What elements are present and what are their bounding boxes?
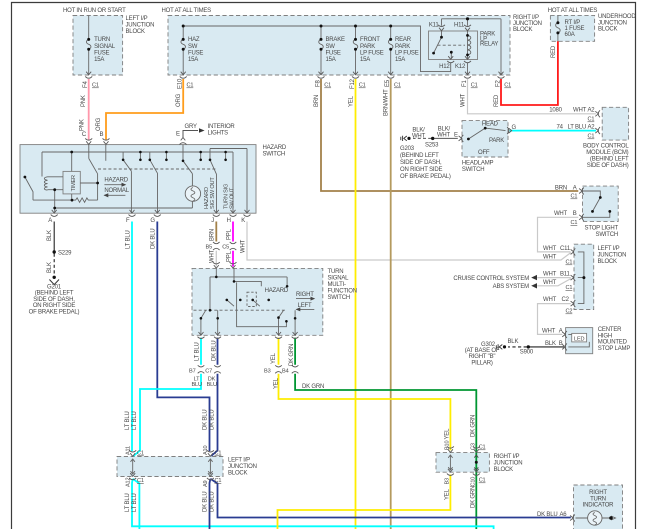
svg-text:FUNCTION: FUNCTION [328, 289, 357, 295]
svg-text:ABS SYSTEM: ABS SYSTEM [493, 284, 530, 290]
svg-text:B7: B7 [189, 369, 196, 375]
svg-text:DK GRN: DK GRN [471, 415, 477, 437]
svg-text:K11: K11 [429, 23, 439, 29]
svg-text:C2: C2 [562, 297, 570, 303]
svg-text:C1: C1 [588, 134, 595, 140]
svg-text:HOT AT ALL TIMES: HOT AT ALL TIMES [548, 8, 598, 14]
svg-text:BLK: BLK [508, 339, 519, 345]
svg-text:C7: C7 [205, 369, 212, 375]
svg-text:MULTI-: MULTI- [328, 282, 347, 288]
svg-text:OF BRAKE PEDAL): OF BRAKE PEDAL) [29, 310, 80, 316]
svg-text:SIDE OF DASH,: SIDE OF DASH, [400, 160, 442, 166]
svg-text:LT BLU: LT BLU [568, 124, 587, 130]
svg-text:C1: C1 [504, 83, 511, 89]
svg-text:H11: H11 [454, 23, 465, 29]
svg-text:SWITCH: SWITCH [328, 295, 350, 301]
svg-text:HEADLAMP: HEADLAMP [462, 161, 494, 167]
svg-text:YEL: YEL [271, 352, 277, 364]
svg-text:BLK: BLK [47, 230, 53, 241]
svg-text:C1: C1 [571, 194, 578, 200]
svg-text:F2: F2 [495, 80, 501, 87]
svg-text:SIGNAL: SIGNAL [328, 276, 350, 282]
svg-text:WHT: WHT [543, 280, 557, 286]
svg-text:WHT: WHT [437, 133, 451, 139]
svg-text:C1: C1 [566, 260, 573, 266]
svg-text:SWITCH: SWITCH [263, 151, 285, 157]
svg-text:C1: C1 [92, 83, 99, 89]
svg-text:SW: SW [188, 44, 198, 50]
svg-text:RED: RED [551, 45, 557, 58]
svg-text:RIGHT I/P: RIGHT I/P [494, 454, 520, 460]
svg-text:WHT: WHT [412, 133, 426, 139]
svg-text:DK BLU: DK BLU [202, 410, 208, 430]
svg-text:LT BLU: LT BLU [132, 411, 138, 430]
svg-text:DK BLU: DK BLU [210, 492, 216, 512]
svg-text:B3: B3 [444, 478, 450, 485]
svg-text:HAZ: HAZ [188, 37, 200, 43]
svg-text:ON RIGHT SIDE: ON RIGHT SIDE [33, 303, 75, 309]
svg-text:DK BLU: DK BLU [202, 492, 208, 512]
svg-text:G: G [150, 218, 155, 224]
svg-text:INDICATOR: INDICATOR [583, 503, 615, 509]
svg-text:WHT: WHT [554, 211, 568, 217]
svg-text:PNK: PNK [80, 119, 86, 131]
svg-text:K12: K12 [455, 64, 466, 70]
svg-text:WHT: WHT [461, 93, 467, 107]
svg-text:ORG: ORG [96, 117, 102, 131]
svg-text:LT BLU: LT BLU [194, 342, 200, 361]
svg-text:F: F [126, 218, 130, 224]
svg-text:C1: C1 [324, 83, 331, 89]
svg-text:PARK: PARK [360, 44, 375, 50]
svg-text:B: B [559, 341, 563, 347]
svg-text:F8: F8 [315, 80, 321, 87]
svg-text:PNK: PNK [81, 95, 87, 107]
svg-text:BLOCK: BLOCK [228, 471, 248, 477]
svg-text:LT BLU: LT BLU [125, 493, 131, 512]
svg-text:UNDERHOOD: UNDERHOOD [598, 14, 636, 20]
svg-text:PARK: PARK [489, 138, 504, 144]
svg-text:WHT: WHT [543, 246, 557, 252]
svg-text:SWITCH: SWITCH [462, 167, 484, 173]
svg-text:FUSE: FUSE [94, 50, 109, 56]
svg-text:(BEHIND LEFT: (BEHIND LEFT [400, 153, 439, 159]
svg-text:BLU: BLU [207, 382, 217, 388]
svg-text:SW: SW [326, 44, 336, 50]
svg-text:C11: C11 [560, 246, 571, 252]
svg-text:DK BLU: DK BLU [151, 229, 157, 249]
svg-text:SIG SW OUT: SIG SW OUT [210, 177, 216, 209]
svg-text:A: A [48, 218, 52, 224]
svg-text:HEAD: HEAD [482, 122, 499, 128]
svg-text:LIGHTS: LIGHTS [208, 131, 229, 137]
svg-text:JUNCTION: JUNCTION [228, 464, 257, 470]
svg-text:K: K [241, 218, 245, 224]
svg-text:WHT: WHT [573, 108, 587, 114]
svg-text:A2: A2 [588, 108, 596, 114]
svg-text:60A: 60A [565, 32, 575, 38]
svg-text:BLOCK: BLOCK [598, 27, 618, 33]
svg-text:LED: LED [574, 336, 584, 342]
svg-text:C1: C1 [566, 285, 573, 291]
svg-text:SIGNAL: SIGNAL [94, 44, 116, 50]
svg-text:OFF: OFF [478, 150, 490, 156]
svg-text:F1: F1 [462, 80, 468, 87]
svg-text:C1: C1 [215, 451, 222, 457]
svg-text:RIGHT: RIGHT [589, 490, 607, 496]
svg-text:G203: G203 [400, 146, 415, 152]
svg-text:C1: C1 [394, 83, 401, 89]
svg-text:LT BLU: LT BLU [132, 493, 138, 512]
svg-text:YEL: YEL [444, 488, 450, 500]
svg-text:BLK: BLK [47, 262, 53, 273]
svg-text:J: J [211, 218, 214, 224]
svg-text:G201: G201 [47, 284, 62, 290]
svg-text:SWITCH: SWITCH [596, 232, 618, 238]
svg-text:BODY CONTROL: BODY CONTROL [583, 144, 629, 150]
svg-text:B3: B3 [264, 369, 271, 375]
svg-text:BRN/WHT: BRN/WHT [384, 89, 390, 116]
svg-text:YEL: YEL [349, 95, 355, 107]
svg-text:BLOCK: BLOCK [513, 27, 533, 33]
svg-text:B11: B11 [560, 272, 570, 278]
svg-text:15A: 15A [395, 57, 405, 63]
svg-text:(AT BASE OF: (AT BASE OF [465, 348, 500, 354]
svg-text:C1: C1 [137, 451, 144, 457]
svg-text:PPL: PPL [226, 250, 232, 262]
svg-text:BRAKE: BRAKE [326, 37, 346, 43]
svg-text:B: B [573, 211, 577, 217]
svg-text:H12: H12 [439, 64, 450, 70]
svg-text:1080: 1080 [549, 108, 562, 114]
svg-text:H: H [227, 218, 231, 224]
svg-text:C1: C1 [571, 220, 578, 226]
svg-text:G: G [512, 125, 517, 131]
svg-text:YEL: YEL [274, 377, 280, 389]
svg-text:LP FUSE: LP FUSE [395, 50, 419, 56]
svg-text:A12: A12 [125, 478, 131, 487]
svg-text:PILLAR): PILLAR) [471, 360, 492, 366]
svg-text:G302: G302 [481, 342, 496, 348]
svg-text:SIDE OF DASH,: SIDE OF DASH, [33, 297, 75, 303]
svg-text:HAZARD: HAZARD [263, 145, 287, 151]
svg-text:PPL: PPL [226, 228, 232, 240]
svg-text:BRN: BRN [210, 229, 216, 241]
svg-text:LT BLU: LT BLU [125, 411, 131, 430]
svg-text:DK GRN: DK GRN [289, 344, 295, 366]
svg-text:DK GRN: DK GRN [302, 384, 324, 390]
svg-text:RELAY: RELAY [480, 42, 498, 48]
svg-text:STOP LAMP: STOP LAMP [598, 346, 631, 352]
svg-text:E5: E5 [385, 79, 391, 87]
svg-text:DK GRN: DK GRN [471, 486, 477, 508]
svg-text:C1: C1 [359, 83, 366, 89]
svg-text:E: E [454, 133, 458, 139]
svg-text:JUNCTION: JUNCTION [126, 23, 155, 29]
svg-text:C5: C5 [222, 245, 229, 251]
svg-text:OF BRAKE PEDAL): OF BRAKE PEDAL) [400, 174, 451, 180]
svg-text:FUSE: FUSE [188, 50, 203, 56]
svg-text:C1: C1 [215, 478, 222, 484]
svg-text:F4: F4 [83, 81, 89, 88]
svg-text:S900: S900 [520, 350, 534, 356]
svg-text:C1: C1 [479, 445, 486, 451]
svg-text:BLU: BLU [192, 382, 202, 388]
svg-text:ON RIGHT SIDE: ON RIGHT SIDE [400, 167, 442, 173]
svg-text:B: B [99, 132, 103, 138]
svg-text:C1: C1 [137, 478, 144, 484]
svg-text:A2: A2 [588, 124, 596, 130]
svg-text:RIGHT: RIGHT [296, 292, 314, 298]
svg-text:DK BLU: DK BLU [537, 512, 557, 518]
svg-text:A: A [573, 185, 577, 191]
svg-text:JUNCTION: JUNCTION [598, 253, 627, 259]
svg-text:TURN: TURN [590, 496, 606, 502]
svg-text:WHT: WHT [543, 254, 557, 260]
svg-text:SW OUT: SW OUT [230, 187, 236, 209]
svg-text:WHT: WHT [542, 328, 556, 334]
svg-text:A10: A10 [203, 446, 209, 455]
svg-text:DK BLU: DK BLU [210, 410, 216, 430]
svg-text:FUSE: FUSE [326, 50, 341, 56]
svg-text:C1: C1 [479, 478, 486, 484]
svg-text:WHT: WHT [543, 297, 557, 303]
svg-text:BLOCK: BLOCK [126, 29, 146, 35]
svg-text:HOT IN RUN OR START: HOT IN RUN OR START [63, 8, 126, 14]
svg-text:MOUNTED: MOUNTED [598, 340, 628, 346]
svg-text:LEFT I/P: LEFT I/P [126, 16, 148, 22]
svg-text:S253: S253 [425, 143, 439, 149]
svg-text:WHT: WHT [210, 249, 216, 263]
svg-text:C3: C3 [471, 443, 477, 450]
svg-text:S229: S229 [58, 251, 72, 257]
svg-text:REAR: REAR [395, 37, 412, 43]
svg-text:GRY: GRY [185, 124, 197, 130]
svg-text:15A: 15A [94, 57, 104, 63]
svg-text:INTERIOR: INTERIOR [208, 124, 236, 130]
svg-text:PARK: PARK [395, 44, 410, 50]
svg-text:74: 74 [557, 124, 564, 130]
svg-text:SIDE OF DASH): SIDE OF DASH) [587, 163, 629, 169]
svg-text:LEFT: LEFT [298, 303, 312, 309]
svg-text:HIGH: HIGH [598, 333, 612, 339]
svg-text:B5: B5 [206, 245, 213, 251]
svg-text:15A: 15A [188, 57, 198, 63]
svg-text:TURN: TURN [94, 37, 110, 43]
svg-text:E: E [176, 131, 180, 137]
svg-text:FRONT: FRONT [360, 37, 380, 43]
svg-text:E10: E10 [178, 78, 184, 89]
svg-text:DK BLU: DK BLU [212, 341, 218, 361]
svg-text:B10: B10 [444, 441, 450, 450]
svg-text:HOT AT ALL TIMES: HOT AT ALL TIMES [162, 8, 212, 14]
svg-text:(BEHIND LEFT: (BEHIND LEFT [590, 157, 629, 163]
svg-text:BRN: BRN [314, 95, 320, 107]
svg-text:BRN: BRN [555, 185, 567, 191]
svg-text:WHT: WHT [240, 239, 246, 253]
svg-text:C1: C1 [588, 117, 595, 123]
svg-text:STOP LIGHT: STOP LIGHT [585, 226, 619, 232]
svg-text:LEFT I/P: LEFT I/P [598, 246, 620, 252]
svg-text:LT BLU: LT BLU [126, 230, 132, 249]
svg-text:A11: A11 [125, 446, 131, 455]
svg-text:BLOCK: BLOCK [598, 259, 618, 265]
svg-text:15A: 15A [360, 57, 370, 63]
svg-text:C1: C1 [471, 83, 478, 89]
svg-text:WHT: WHT [543, 272, 557, 278]
svg-text:MODULE (BCM): MODULE (BCM) [586, 150, 628, 156]
svg-text:C10: C10 [471, 477, 477, 487]
svg-text:C2: C2 [566, 309, 573, 315]
svg-text:JUNCTION: JUNCTION [598, 20, 627, 26]
svg-text:BLK: BLK [545, 341, 556, 347]
svg-text:A: A [559, 328, 563, 334]
svg-text:RED: RED [494, 94, 500, 107]
svg-text:F12: F12 [350, 78, 356, 89]
svg-text:JUNCTION: JUNCTION [494, 461, 523, 467]
svg-text:TIMER: TIMER [71, 175, 77, 192]
svg-text:TURN: TURN [328, 269, 344, 275]
svg-text:LEFT I/P: LEFT I/P [228, 458, 250, 464]
svg-text:C1: C1 [187, 83, 194, 89]
svg-text:HAZARD: HAZARD [104, 177, 128, 183]
svg-text:A6: A6 [560, 512, 568, 518]
svg-text:YEL: YEL [444, 428, 450, 440]
svg-text:NORMAL: NORMAL [104, 188, 129, 194]
svg-text:CRUISE CONTROL SYSTEM: CRUISE CONTROL SYSTEM [453, 276, 529, 282]
svg-text:BLOCK: BLOCK [494, 467, 514, 473]
svg-text:B4: B4 [282, 369, 289, 375]
svg-text:A9: A9 [203, 480, 209, 487]
svg-text:LP FUSE: LP FUSE [360, 50, 384, 56]
svg-text:(BEHIND LEFT: (BEHIND LEFT [35, 291, 74, 297]
svg-text:CENTER: CENTER [598, 327, 622, 333]
svg-text:ORG: ORG [176, 93, 182, 107]
svg-text:HAZARD: HAZARD [265, 288, 289, 294]
svg-text:RIGHT "B": RIGHT "B" [469, 354, 496, 360]
svg-text:15A: 15A [326, 57, 336, 63]
